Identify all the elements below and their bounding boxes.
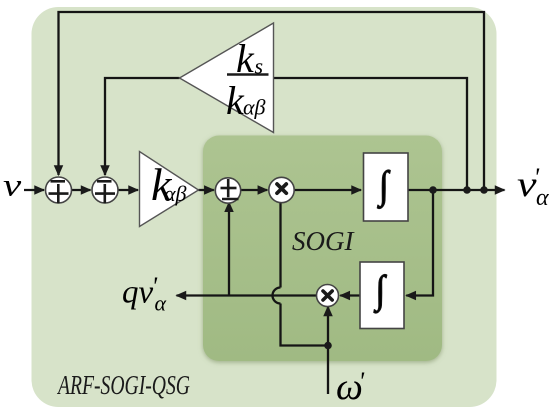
node dot on output line x=484	[480, 186, 488, 194]
svg-text:qv: qv	[122, 275, 154, 311]
wire input v to sum1	[24, 189, 44, 191]
svg-text:α: α	[536, 185, 549, 211]
node dot on omega line	[324, 342, 332, 350]
gain block kab (triangle)	[140, 152, 199, 227]
svg-text:SOGI: SOGI	[292, 226, 355, 256]
svg-text:k: k	[236, 36, 255, 81]
node dot on output line x=467	[463, 186, 471, 194]
svg-text:∫: ∫	[376, 164, 390, 209]
integrator I2	[360, 262, 404, 329]
wire branch up to sum3 minus input	[228, 202, 230, 295]
wire multiplier X1 to integrator I1	[294, 189, 361, 191]
wire integrator I1 to output v'a	[408, 189, 505, 191]
svg-text:αβ: αβ	[164, 181, 187, 206]
multiplier X1	[269, 177, 294, 202]
summing junction S3 (plus-minus)	[215, 178, 240, 203]
svg-text:∫: ∫	[373, 269, 387, 314]
multiplier X2	[317, 285, 339, 307]
wire sum1 to sum2	[72, 189, 91, 191]
label output qv'a	[122, 272, 167, 316]
wire omega branch to multiplier X1 with hop	[281, 304, 329, 346]
wire feedback top: output node to sum1	[59, 12, 485, 190]
svg-text:α: α	[155, 291, 167, 316]
summing junction S1	[46, 177, 72, 203]
wire integrator I2 to multiplier X2	[340, 294, 360, 296]
wire hop over qv'a line	[273, 288, 281, 304]
svg-text:v: v	[3, 167, 22, 203]
svg-text:ARF-SOGI-QSG: ARF-SOGI-QSG	[57, 370, 190, 400]
wire gain ks/kab output to sum2	[105, 78, 180, 175]
summing junction S2	[92, 177, 118, 203]
SOGI inner block background	[203, 136, 442, 362]
wire multiplier X2 to output qv'a and sum3 feedback	[177, 294, 317, 296]
node dot on output line x=433	[429, 186, 437, 194]
label output v'a	[517, 163, 549, 211]
gain block ks/kab (triangle, fraction)	[180, 23, 274, 133]
svg-text:s: s	[255, 54, 264, 79]
wire feedback mid: output node to gain ks/kab input	[274, 78, 468, 190]
integrator I1	[364, 153, 409, 221]
wire sum2 to gain kab	[118, 189, 138, 191]
wire omega input to multiplier X2	[327, 307, 329, 395]
wire gain kab to sum3	[199, 189, 214, 191]
label omega input	[336, 366, 365, 408]
svg-text:': '	[359, 367, 365, 396]
wire output node down into integrator I2	[406, 190, 433, 296]
wire sum3 to multiplier X1	[241, 189, 268, 191]
wire hop to multiplier X1 bottom	[279, 202, 281, 288]
svg-text:αβ: αβ	[243, 95, 266, 120]
